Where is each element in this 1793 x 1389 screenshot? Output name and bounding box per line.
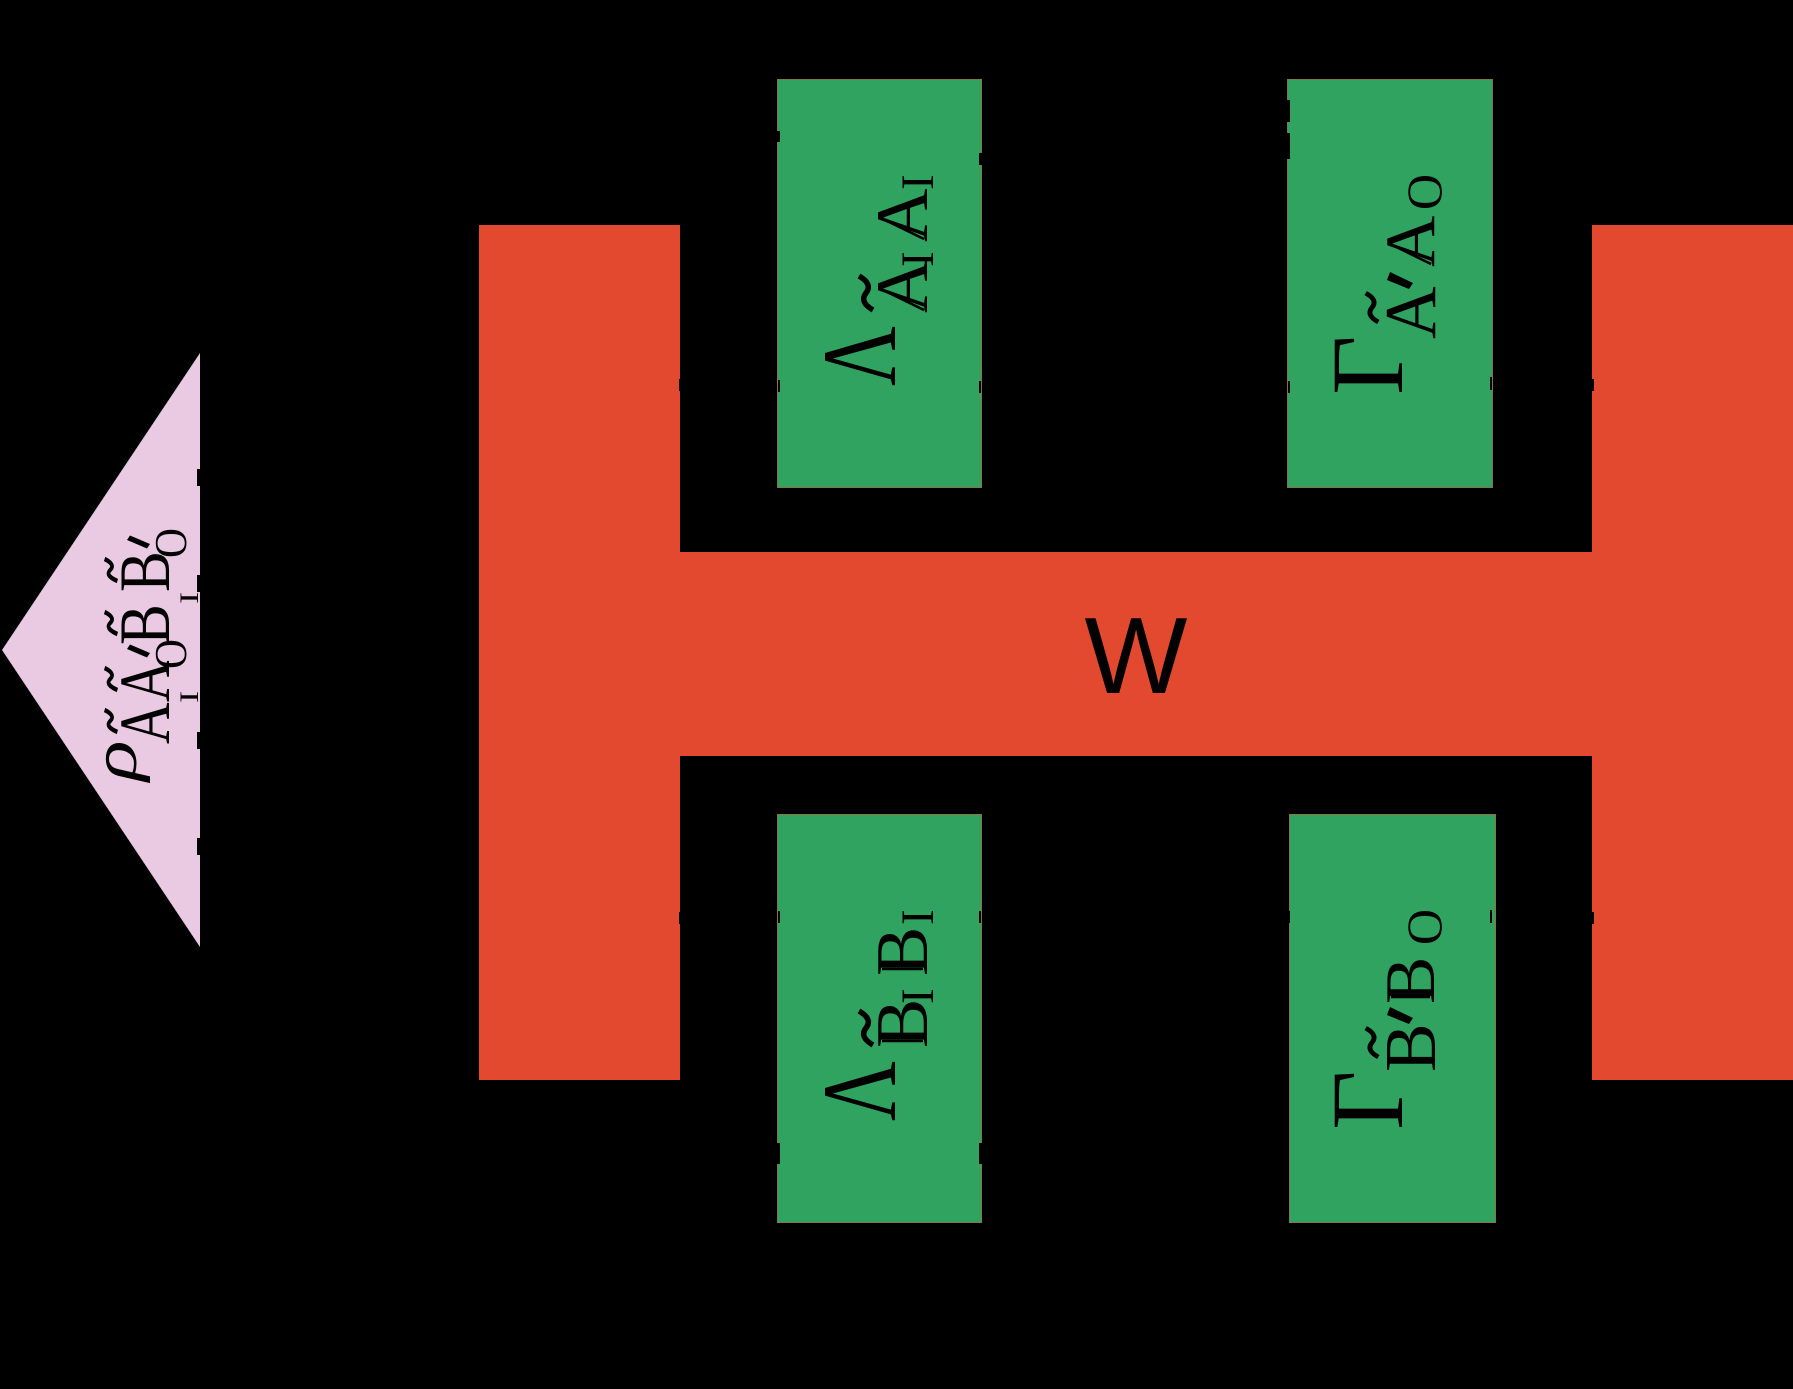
label Lambda_{A~_I A_I} top-left: [800, 174, 944, 386]
W label: [680, 553, 1592, 758]
instrument box Gamma_A top-right: [1288, 80, 1492, 487]
svg-text:A: A: [1372, 216, 1450, 267]
wire stub on Lambda_B box right edge: [979, 911, 981, 923]
wire stub on triangle edge 1: [197, 469, 200, 486]
svg-text:Γ: Γ: [1311, 1070, 1425, 1130]
svg-text:A: A: [1370, 286, 1451, 339]
wire A_O stub on Gamma_A box right edge: [1490, 377, 1492, 390]
dashed wire remnant on Lambda_A left edge: [777, 131, 780, 142]
svg-text:O: O: [1396, 174, 1452, 210]
dashed wire remnant on Lambda_B left edge: [777, 1143, 780, 1164]
svg-text:A: A: [106, 702, 186, 744]
wire B_I stub on Lambda_B box left edge: [778, 911, 780, 923]
svg-text:O: O: [1396, 909, 1452, 945]
svg-text:I: I: [892, 251, 944, 267]
svg-text:Γ: Γ: [1311, 335, 1425, 395]
wire stub on triangle edge 3: [197, 732, 200, 749]
svg-text:A: A: [862, 189, 944, 242]
wire stub on Gamma_A box left edge: [1288, 381, 1290, 393]
wire A_O stub on W right arm: [1592, 379, 1594, 391]
svg-text:O: O: [146, 528, 196, 558]
svg-text:B: B: [1370, 1023, 1451, 1072]
dashed wire remnant on Lambda_A right edge: [979, 153, 982, 165]
process matrix W horizontal bar: [680, 552, 1592, 756]
wire B_O stub on W right arm: [1592, 912, 1594, 924]
wire A_I stub on W left arm: [679, 379, 681, 391]
svg-text:Λ: Λ: [800, 326, 918, 386]
state rho triangle: [0, 350, 204, 950]
wire B_O stub on Gamma_B box right edge: [1490, 910, 1492, 923]
wire A_I stub on Lambda_A box left edge: [778, 380, 780, 392]
svg-text:Λ: Λ: [800, 1061, 918, 1121]
instrument box Gamma_B bottom-right: [1290, 815, 1495, 1222]
svg-text:ρ: ρ: [79, 740, 151, 783]
label Lambda_{B~_I B_I} bottom-left: [800, 909, 944, 1121]
dashed wire remnant on Lambda_B right edge: [979, 1143, 982, 1164]
wire stub on triangle edge 2: [197, 575, 200, 592]
svg-text:I: I: [892, 909, 944, 925]
dashed wire remnant on Gamma_A left edge (upper): [1287, 100, 1290, 122]
process matrix W right vertical bar: [1592, 225, 1793, 1080]
svg-text:I: I: [892, 988, 944, 1004]
process matrix W left vertical bar: [479, 225, 680, 1080]
svg-text:I: I: [175, 592, 204, 604]
wire stub on triangle edge 4: [197, 838, 200, 855]
instrument box Lambda_A top-left: [778, 80, 981, 487]
label Gamma_{A~' A_O} top-right: [1311, 174, 1452, 395]
label rho_{A~_I A~'_O B~_I B~'_O} on triangle: [79, 528, 204, 783]
instrument box Lambda_B bottom-left: [778, 815, 981, 1222]
wire stub on Gamma_B box left edge: [1288, 911, 1290, 923]
label Gamma_{B~' B_O} bottom-right: [1311, 909, 1452, 1130]
wire B_I stub on W left arm: [679, 912, 681, 924]
svg-text:B: B: [105, 604, 185, 645]
dashed wire remnant on Gamma_A left edge (lower): [1287, 133, 1290, 159]
svg-text:I: I: [892, 174, 944, 190]
wire stub on Lambda_A box right edge: [979, 381, 981, 393]
